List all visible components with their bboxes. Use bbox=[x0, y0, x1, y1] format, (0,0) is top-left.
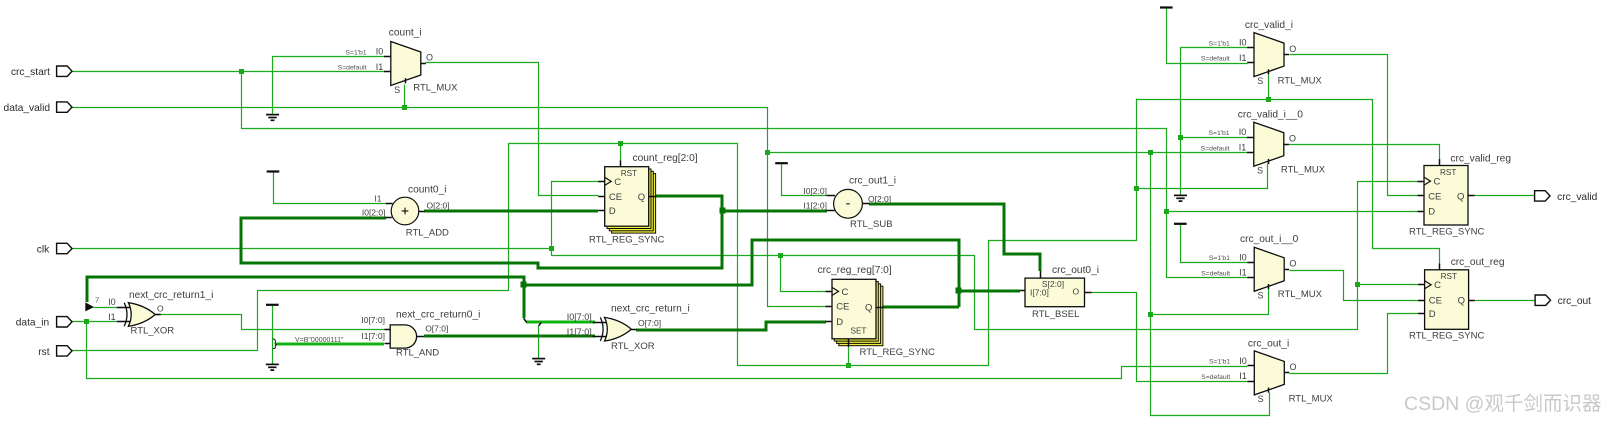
svg-text:RTL_MUX: RTL_MUX bbox=[1278, 76, 1323, 87]
svg-text:RTL_BSEL: RTL_BSEL bbox=[1032, 309, 1079, 320]
wire rst RST count_reg bbox=[620, 144, 622, 161]
svg-text:S=1'b1: S=1'b1 bbox=[1209, 255, 1230, 262]
svg-text:S: S bbox=[1257, 166, 1263, 176]
wire and O to xor2 I1 bbox=[424, 335, 595, 338]
wire count_i S drop bbox=[404, 85, 406, 108]
wire const bus to and I1 bbox=[276, 343, 384, 346]
xor next_crc_return_i (RTL_XOR) bbox=[567, 304, 690, 353]
svg-text:D: D bbox=[1428, 207, 1435, 218]
input port clk bbox=[37, 243, 72, 255]
bus ripper gnd bit bbox=[539, 322, 542, 326]
svg-text:S=default: S=default bbox=[1201, 145, 1230, 152]
svg-text:crc_out0_i: crc_out0_i bbox=[1052, 265, 1099, 276]
wire crc_start net bbox=[72, 71, 386, 73]
svg-text:count0_i: count0_i bbox=[408, 184, 447, 195]
wire tap7 to xor1 I0 bbox=[94, 307, 117, 309]
vcc constant vcc const vec bbox=[266, 304, 279, 306]
svg-text:CE: CE bbox=[1429, 296, 1442, 307]
wire adder I1 vcc bbox=[274, 173, 386, 204]
wire out_i0 S drop bbox=[1151, 289, 1269, 315]
wire out_i O to D out_reg bbox=[1290, 314, 1419, 374]
and next_crc_return0_i (RTL_AND) bbox=[361, 309, 480, 358]
wire out_i0 I0 vcc bbox=[1181, 225, 1248, 263]
wire crc_reg tap drop bbox=[523, 285, 526, 318]
vcc constant vcc sub I0 bbox=[775, 162, 788, 164]
svg-text:rst: rst bbox=[38, 347, 49, 358]
adder count0_i (RTL_ADD) bbox=[362, 184, 450, 238]
svg-text:I1[7:0]: I1[7:0] bbox=[567, 327, 592, 337]
wire tapped bus to xor2 I0 bbox=[526, 321, 595, 324]
svg-text:C: C bbox=[842, 287, 849, 298]
vcc constant vcc valid_i I1 bbox=[1160, 6, 1173, 8]
wire data_valid drop2 bbox=[1151, 153, 1270, 416]
svg-text:O[7:0]: O[7:0] bbox=[425, 324, 448, 334]
svg-text:RTL_SUB: RTL_SUB bbox=[850, 219, 893, 230]
wire data_valid net bbox=[72, 108, 827, 307]
svg-text:crc_start: crc_start bbox=[11, 67, 50, 78]
input port rst bbox=[38, 346, 72, 358]
node clk out_reg junction bbox=[1355, 282, 1360, 287]
svg-text:S: S bbox=[1258, 394, 1264, 404]
mux crc_valid_i (RTL_MUX) bbox=[1201, 33, 1296, 86]
svg-text:I0: I0 bbox=[1239, 356, 1247, 366]
svg-text:O: O bbox=[1289, 44, 1296, 54]
svg-text:next_crc_return_i: next_crc_return_i bbox=[611, 304, 690, 315]
svg-text:O: O bbox=[1289, 133, 1296, 143]
node data_in junction bbox=[84, 319, 89, 324]
svg-text:D: D bbox=[836, 317, 843, 328]
svg-text:S=1'b1: S=1'b1 bbox=[1208, 130, 1229, 137]
node data_valid out_i0 S junction bbox=[1148, 312, 1153, 317]
wire xor2 O to D crc_reg_reg bbox=[636, 322, 826, 330]
wire clk net bbox=[72, 182, 1418, 330]
svg-text:I0[7:0]: I0[7:0] bbox=[361, 315, 385, 325]
wire crc_start drop bbox=[242, 72, 1248, 278]
node data_valid branch junction bbox=[765, 150, 770, 155]
svg-text:RTL_REG_SYNC: RTL_REG_SYNC bbox=[860, 347, 935, 358]
ground gnd const vec bbox=[266, 364, 279, 370]
xor next_crc_return1_i (RTL_XOR) bbox=[108, 290, 213, 337]
svg-text:data_in: data_in bbox=[16, 318, 49, 329]
ground gnd valid muxes bbox=[1174, 195, 1187, 201]
svg-text:crc_out_i__0: crc_out_i__0 bbox=[1240, 234, 1299, 245]
svg-text:crc_out: crc_out bbox=[1558, 296, 1592, 307]
svg-text:RTL_MUX: RTL_MUX bbox=[1289, 394, 1334, 405]
svg-text:CE: CE bbox=[1428, 191, 1441, 202]
svg-text:CE: CE bbox=[609, 192, 622, 203]
svg-text:crc_valid_i: crc_valid_i bbox=[1245, 20, 1293, 31]
svg-text:RST: RST bbox=[621, 169, 637, 178]
vcc constant vcc out_i0 I0 bbox=[1174, 223, 1187, 225]
vcc constant vcc adder I1 bbox=[267, 170, 280, 172]
wire valid_i0 O to RST bbox=[1289, 145, 1440, 160]
svg-text:I0: I0 bbox=[1239, 252, 1247, 262]
wire Q out_reg to port bbox=[1476, 300, 1536, 302]
svg-text:I0: I0 bbox=[108, 297, 116, 307]
wire crc_reg bus to bsel I bbox=[959, 290, 1020, 293]
svg-text:S: S bbox=[1257, 76, 1263, 86]
wire data_in drop bbox=[87, 322, 1248, 379]
wire valid_i S drop bbox=[1268, 75, 1270, 100]
svg-text:RST: RST bbox=[1440, 168, 1456, 177]
register crc_valid_reg (RTL_REG_SYNC) bbox=[1418, 159, 1475, 225]
wire crc_start to D valid_reg bbox=[1167, 211, 1418, 213]
wire rst S valid_i0 bbox=[1137, 164, 1268, 189]
svg-text:O[2:0]: O[2:0] bbox=[868, 194, 891, 204]
wire crc_reg bus riser bbox=[87, 240, 959, 307]
node count bus junction bbox=[720, 208, 726, 214]
svg-text:CSDN @观千剑而识器: CSDN @观千剑而识器 bbox=[1404, 393, 1601, 415]
wire valid_i O bbox=[1290, 55, 1418, 196]
node clk count_reg junction bbox=[549, 246, 554, 251]
node crc_reg bsel junction bbox=[956, 288, 962, 294]
svg-text:I0[2:0]: I0[2:0] bbox=[362, 207, 386, 217]
svg-text:Q: Q bbox=[1457, 191, 1464, 202]
svg-text:next_crc_return0_i: next_crc_return0_i bbox=[396, 309, 480, 320]
output port crc_out bbox=[1535, 295, 1591, 307]
node crc_reg tap junction bbox=[521, 282, 527, 288]
svg-text:crc_reg_reg[7:0]: crc_reg_reg[7:0] bbox=[818, 265, 892, 276]
svg-text:D: D bbox=[609, 206, 616, 217]
svg-text:count_i: count_i bbox=[389, 27, 422, 38]
svg-text:Q: Q bbox=[638, 192, 645, 203]
wire out_i0 O to CE out_reg bbox=[1290, 271, 1419, 301]
svg-text:crc_valid_i__0: crc_valid_i__0 bbox=[1238, 110, 1303, 121]
register crc_reg_reg[7:0] (RTL_REG_SYNC) bbox=[826, 279, 884, 347]
svg-text:Q: Q bbox=[865, 303, 872, 314]
wire clk C crc_out_reg bbox=[1358, 284, 1419, 286]
svg-text:I0: I0 bbox=[1239, 127, 1247, 137]
svg-text:S: S bbox=[1258, 291, 1264, 301]
bus tap arrow bit 7 bbox=[85, 296, 99, 312]
svg-text:O: O bbox=[1289, 259, 1296, 269]
svg-text:crc_out_i: crc_out_i bbox=[1248, 338, 1289, 349]
svg-text:O: O bbox=[157, 304, 164, 314]
svg-text:S=1'b1: S=1'b1 bbox=[345, 49, 366, 56]
node crc_start D junction bbox=[1164, 209, 1169, 214]
ground gnd count_i I0 bbox=[266, 115, 279, 121]
wire data_in net bbox=[72, 321, 117, 323]
node clk crc_reg_reg junction bbox=[778, 253, 783, 258]
wire adder O to D bbox=[424, 210, 598, 213]
constant vector brace bbox=[273, 337, 344, 349]
svg-text:RTL_REG_SYNC: RTL_REG_SYNC bbox=[1409, 331, 1484, 342]
wire rst net bbox=[72, 99, 1137, 366]
svg-text:V=B"00000111": V=B"00000111" bbox=[295, 337, 344, 344]
node count_i S junction bbox=[402, 105, 407, 110]
svg-text:C: C bbox=[1434, 280, 1441, 291]
input port data_valid bbox=[4, 102, 72, 114]
output port crc_valid bbox=[1535, 191, 1598, 203]
svg-text:RTL_REG_SYNC: RTL_REG_SYNC bbox=[589, 234, 664, 245]
svg-text:RST: RST bbox=[1441, 272, 1457, 281]
register count_reg[2:0] (RTL_REG_SYNC) bbox=[598, 160, 656, 233]
svg-text:I1: I1 bbox=[1239, 143, 1247, 153]
svg-text:I0[2:0]: I0[2:0] bbox=[803, 186, 827, 196]
svg-text:I1: I1 bbox=[376, 62, 384, 72]
svg-text:RTL_AND: RTL_AND bbox=[396, 347, 439, 358]
wire const vec riser bbox=[272, 306, 274, 365]
svg-text:O: O bbox=[1290, 362, 1297, 372]
wire xor1 O to and I0 bbox=[156, 315, 385, 330]
svg-text:O[7:0]: O[7:0] bbox=[638, 318, 661, 328]
wire count bus to sub I1 bbox=[722, 210, 827, 213]
wire rst S-line bbox=[1137, 100, 1440, 264]
node rst valid_i S junction bbox=[1266, 97, 1271, 102]
svg-text:I0: I0 bbox=[376, 47, 384, 57]
bus ripper diagonal bbox=[524, 318, 527, 322]
input port crc_start bbox=[11, 66, 72, 78]
node rst RST count_reg junction bbox=[618, 141, 623, 146]
svg-text:next_crc_return1_i: next_crc_return1_i bbox=[129, 290, 213, 301]
register crc_out_reg (RTL_REG_SYNC) bbox=[1418, 264, 1475, 330]
svg-text:CE: CE bbox=[836, 302, 849, 313]
svg-text:S=default: S=default bbox=[1201, 270, 1230, 277]
svg-text:C: C bbox=[614, 177, 621, 188]
node data_valid S junction bbox=[1148, 150, 1153, 155]
svg-text:RTL_MUX: RTL_MUX bbox=[1281, 164, 1326, 175]
svg-text:I1: I1 bbox=[1239, 268, 1247, 278]
wire rst SET crc_reg_reg bbox=[848, 347, 850, 366]
svg-text:RTL_MUX: RTL_MUX bbox=[1278, 289, 1323, 300]
svg-text:O: O bbox=[426, 53, 433, 63]
svg-text:S: S bbox=[394, 85, 400, 95]
ground gnd bit bbox=[532, 359, 545, 365]
svg-text:S=default: S=default bbox=[1201, 56, 1230, 63]
svg-text:count_reg[2:0]: count_reg[2:0] bbox=[633, 153, 698, 164]
wire count_i O to CE bbox=[426, 63, 599, 196]
svg-text:I0: I0 bbox=[1239, 38, 1247, 48]
svg-text:Q: Q bbox=[1458, 296, 1465, 307]
mux crc_out_i (RTL_MUX) bbox=[1201, 351, 1296, 404]
mux crc_valid_i__0 (RTL_MUX) bbox=[1201, 122, 1296, 175]
svg-text:I1: I1 bbox=[108, 312, 116, 322]
wire count bus Q feedback bbox=[241, 196, 722, 268]
svg-text:crc_out1_i: crc_out1_i bbox=[849, 176, 896, 187]
bit-select crc_out0_i (RTL_BSEL) bbox=[1020, 265, 1099, 320]
node gnd I0 junction bbox=[1178, 135, 1183, 140]
wire valid_i I1 vcc bbox=[1167, 9, 1248, 64]
wire valid_i0 I0 bbox=[1181, 137, 1248, 139]
subtractor crc_out1_i (RTL_SUB) bbox=[803, 176, 896, 231]
svg-text:SET: SET bbox=[851, 326, 867, 335]
node crc_start junction bbox=[239, 69, 244, 74]
svg-text:I1: I1 bbox=[1239, 53, 1247, 63]
wire Q valid_reg to port bbox=[1475, 195, 1535, 197]
svg-text:RTL_MUX: RTL_MUX bbox=[413, 82, 458, 93]
wire clk C count_reg bbox=[552, 182, 599, 249]
svg-text:crc_valid: crc_valid bbox=[1557, 192, 1598, 203]
wire count_i I0 gnd riser bbox=[273, 57, 386, 114]
svg-text:RTL_ADD: RTL_ADD bbox=[406, 227, 449, 238]
svg-text:crc_valid_reg: crc_valid_reg bbox=[1450, 154, 1511, 165]
svg-text:I1: I1 bbox=[1239, 371, 1247, 381]
wire clk C crc_reg_reg bbox=[781, 256, 826, 292]
svg-text:D: D bbox=[1429, 309, 1436, 320]
svg-text:crc_out_reg: crc_out_reg bbox=[1451, 257, 1505, 268]
mux crc_out_i__0 (RTL_MUX) bbox=[1201, 247, 1296, 300]
svg-text:S=default: S=default bbox=[338, 65, 367, 72]
input port data_in bbox=[16, 317, 72, 329]
node rst SET junction bbox=[846, 363, 851, 368]
svg-text:RTL_XOR: RTL_XOR bbox=[611, 341, 655, 352]
wire sub O to bsel S bbox=[869, 204, 1040, 271]
node rst S junction bbox=[1134, 186, 1139, 191]
mux count_i (RTL_MUX) bbox=[338, 42, 433, 95]
wire bsel O to out_i I1 bbox=[1092, 293, 1248, 382]
svg-text:I1: I1 bbox=[374, 193, 381, 203]
svg-text:7: 7 bbox=[95, 296, 99, 305]
svg-text:O[2:0]: O[2:0] bbox=[427, 201, 450, 211]
svg-text:S=default: S=default bbox=[1201, 374, 1230, 381]
svg-text:S=1'b1: S=1'b1 bbox=[1209, 359, 1230, 366]
svg-text:C: C bbox=[1434, 177, 1441, 188]
wire crc_reg bus Q bbox=[883, 306, 959, 309]
wire sub I0 vcc bbox=[782, 165, 827, 196]
svg-text:I[7:0]: I[7:0] bbox=[1030, 287, 1049, 297]
svg-text:I0[7:0]: I0[7:0] bbox=[567, 312, 592, 322]
svg-text:O: O bbox=[1073, 287, 1080, 297]
svg-text:I1[2:0]: I1[2:0] bbox=[803, 201, 827, 211]
svg-text:clk: clk bbox=[37, 244, 50, 255]
svg-text:data_valid: data_valid bbox=[4, 103, 51, 114]
svg-text:RTL_XOR: RTL_XOR bbox=[131, 326, 175, 337]
wire valid_i I0 gnd bbox=[1181, 48, 1248, 196]
wire data_valid branch bbox=[768, 152, 1248, 154]
svg-text:S=1'b1: S=1'b1 bbox=[1209, 40, 1230, 47]
wire gnd bit tap bbox=[538, 326, 540, 359]
svg-text:RTL_REG_SYNC: RTL_REG_SYNC bbox=[1409, 227, 1484, 238]
svg-text:I1[7:0]: I1[7:0] bbox=[361, 331, 385, 341]
